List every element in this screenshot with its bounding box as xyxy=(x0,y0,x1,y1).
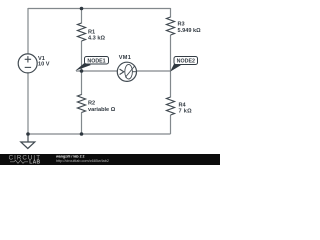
svg-text:wangzrli / lab 2 2: wangzrli / lab 2 2 xyxy=(55,154,85,158)
wire bottom rail xyxy=(28,133,171,135)
svg-text:variable Ω: variable Ω xyxy=(88,107,116,113)
svg-text:VM1: VM1 xyxy=(119,55,132,61)
svg-text:http://circuitlab.com/c685w/la: http://circuitlab.com/c685w/lab2 xyxy=(56,159,109,163)
resistor R1 xyxy=(78,23,86,41)
wire VM1 right terminal to NODE2 xyxy=(137,70,171,72)
wire left rail upper (top rail to V1 top terminal) xyxy=(27,8,29,55)
svg-text:R3: R3 xyxy=(178,21,185,27)
watermark bar xyxy=(0,154,220,165)
junction bottom rail / ground xyxy=(26,132,30,136)
svg-text:5.949 kΩ: 5.949 kΩ xyxy=(178,28,202,34)
junction bottom rail / middle branch xyxy=(80,132,84,136)
resistor R2 xyxy=(78,95,86,113)
wire right rail lower (R4 to bottom rail) xyxy=(170,115,172,134)
resistor R4 xyxy=(167,97,175,115)
wire right rail center (R3 to R4 through node NODE2) xyxy=(170,35,172,98)
wire right rail upper (top rail to R3) xyxy=(170,8,172,18)
wire middle branch upper (top rail to R1) xyxy=(81,9,83,24)
svg-text:4.3 kΩ: 4.3 kΩ xyxy=(88,36,105,42)
svg-text:R1: R1 xyxy=(88,30,95,36)
junction node NODE1 (middle branch / voltmeter wire) xyxy=(80,69,84,73)
ground xyxy=(21,134,35,149)
wire middle branch lower (R2 to bottom rail) xyxy=(81,113,83,135)
svg-text:R2: R2 xyxy=(88,100,95,106)
svg-text:NODE1: NODE1 xyxy=(87,58,105,64)
node NODE1 flag xyxy=(75,57,108,71)
svg-text:NODE2: NODE2 xyxy=(177,59,195,65)
wire middle branch center (R1 to R2 through node NODE1) xyxy=(81,41,83,95)
voltmeter VM1 xyxy=(117,62,136,81)
watermark CircuitLab logo xyxy=(9,155,41,166)
svg-text:7 kΩ: 7 kΩ xyxy=(179,108,193,114)
junction top rail / middle branch xyxy=(80,7,84,11)
node NODE2 flag xyxy=(170,57,197,72)
svg-text:LAB: LAB xyxy=(29,160,40,165)
resistor R3 xyxy=(167,17,175,35)
wire NODE1 to VM1 left terminal xyxy=(76,70,118,72)
voltage source V1 xyxy=(18,54,37,73)
wire top rail xyxy=(28,8,171,10)
wire left rail lower (V1 bottom terminal to bottom rail) xyxy=(27,73,29,135)
svg-text:10 V: 10 V xyxy=(38,61,50,67)
